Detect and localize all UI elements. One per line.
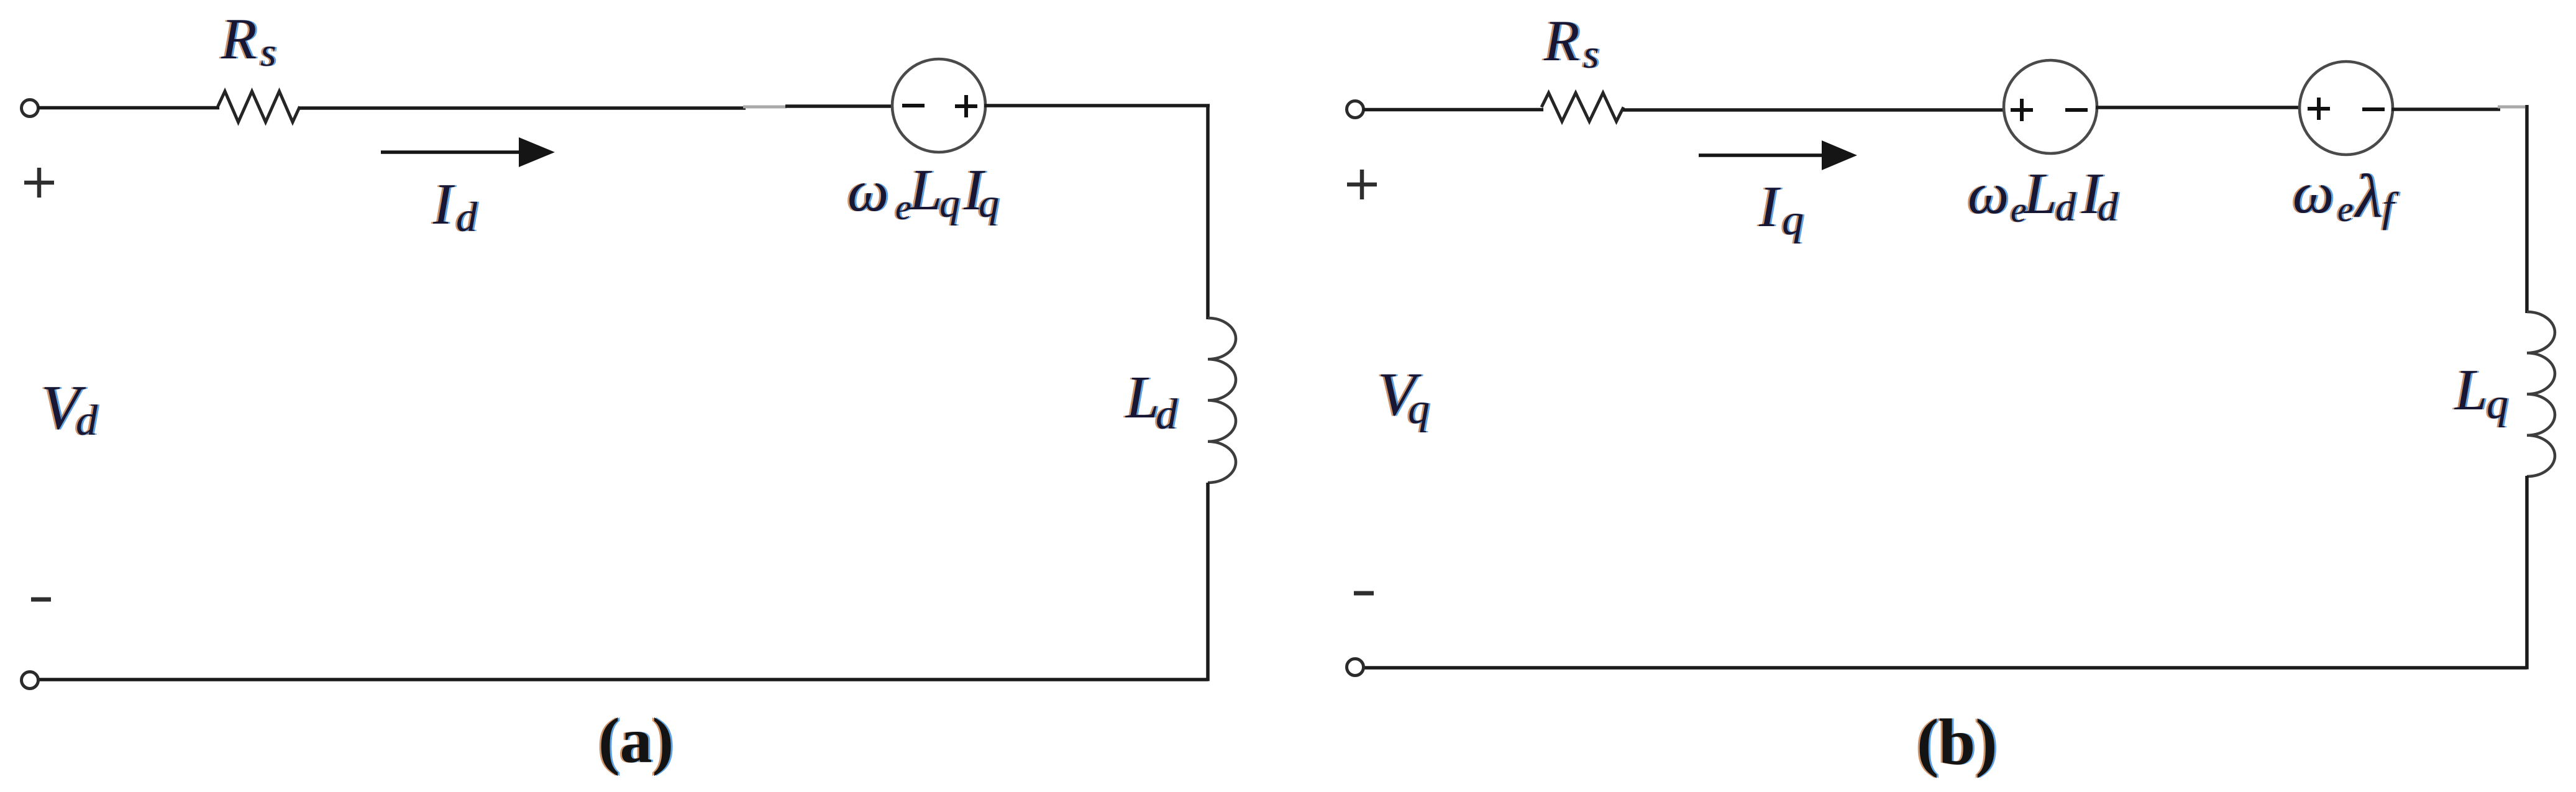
plus sign inside source 1 (b) — [2011, 99, 2033, 121]
svg-text:Rs: Rs — [1543, 9, 1599, 77]
plus sign inside source (a) — [955, 95, 977, 117]
current arrow Iq (b) — [1699, 140, 1857, 170]
svg-text:ωeLqIq: ωeLqIq — [847, 158, 999, 227]
caption (b) — [1915, 706, 1999, 778]
inductor Ld (a) — [1208, 318, 1236, 483]
dependent voltage source weLdId (b) — [2004, 60, 2097, 153]
polarity plus mark (a) — [24, 168, 54, 198]
label Iq (b) — [1756, 175, 1806, 244]
svg-text:ωeLdId: ωeLdId — [1968, 162, 2119, 230]
current arrow Id (a) — [381, 137, 555, 167]
wire: resistor to junction (a) — [299, 106, 746, 110]
wire: source 1 to source 2 (b) — [2096, 106, 2301, 109]
minus sign inside source (a) — [902, 104, 925, 107]
dependent voltage source weLqIq (a) — [892, 59, 985, 152]
wire: source 2 to corner (b) — [2391, 107, 2500, 111]
wire: right side lower (a) — [1206, 483, 1210, 681]
minus sign inside source 1 (b) — [2065, 108, 2088, 112]
wire: right side lower (b) — [2525, 476, 2529, 670]
wire: bottom (b) — [1364, 666, 2527, 670]
label weLdId (b) — [1966, 162, 2121, 230]
wire: top-left to resistor (a) — [38, 106, 219, 110]
label Id (a) — [431, 172, 480, 240]
circuit (a) — [22, 7, 1236, 776]
terminal: Vd - (bottom-left, a) — [22, 672, 39, 689]
caption (a) — [596, 705, 675, 776]
label Ld (a) — [1123, 364, 1180, 439]
polarity minus mark (a) — [31, 598, 51, 602]
wire: grey overlap segment (a) — [743, 106, 787, 109]
svg-text:(a): (a) — [598, 705, 674, 776]
svg-text:Vd: Vd — [41, 373, 98, 445]
svg-text:(b): (b) — [1917, 706, 1998, 778]
label Vd (a) — [39, 373, 100, 445]
resistor Rs (a) — [218, 91, 300, 122]
svg-text:Rs: Rs — [221, 7, 276, 75]
svg-text:Ld: Ld — [1125, 364, 1178, 439]
svg-text:Lq: Lq — [2454, 358, 2508, 428]
minus sign inside source 2 (b) — [2362, 107, 2385, 111]
circuit (b) — [1347, 9, 2555, 778]
plus sign inside source 2 (b) — [2308, 98, 2330, 120]
label Rs (a) — [219, 7, 278, 75]
label welf (b) — [2291, 161, 2401, 230]
polarity minus mark (b) — [1354, 591, 1374, 596]
wire: bottom (a) — [39, 678, 1208, 681]
wire: right side upper (a) — [1206, 104, 1210, 320]
wire: top-left to resistor (b) — [1363, 108, 1543, 112]
terminal: Vd + (top-left, a) — [22, 100, 39, 117]
wire: resistor to source 1 (b) — [1623, 108, 2005, 112]
wire: grey overlap segment (b) — [2498, 106, 2525, 109]
wire: junction to source (a) — [785, 104, 893, 108]
inductor Lq (b) — [2527, 312, 2555, 476]
resistor Rs (b) — [1541, 93, 1624, 122]
svg-text:Vq: Vq — [1377, 360, 1430, 433]
wire: right side upper (b) — [2525, 105, 2529, 313]
dependent voltage source welf (b) — [2300, 61, 2393, 155]
terminal: Vq - (bottom-left, b) — [1347, 659, 1364, 676]
label Rs (b) — [1541, 9, 1601, 77]
label weLqIq (a) — [846, 158, 1001, 227]
label Lq (b) — [2452, 358, 2510, 428]
terminal: Vq + (top-left, b) — [1347, 101, 1364, 118]
label Vq (b) — [1376, 360, 1432, 433]
wire: source to top-right corner (a) — [984, 104, 1210, 107]
polarity plus mark (b) — [1347, 170, 1377, 199]
